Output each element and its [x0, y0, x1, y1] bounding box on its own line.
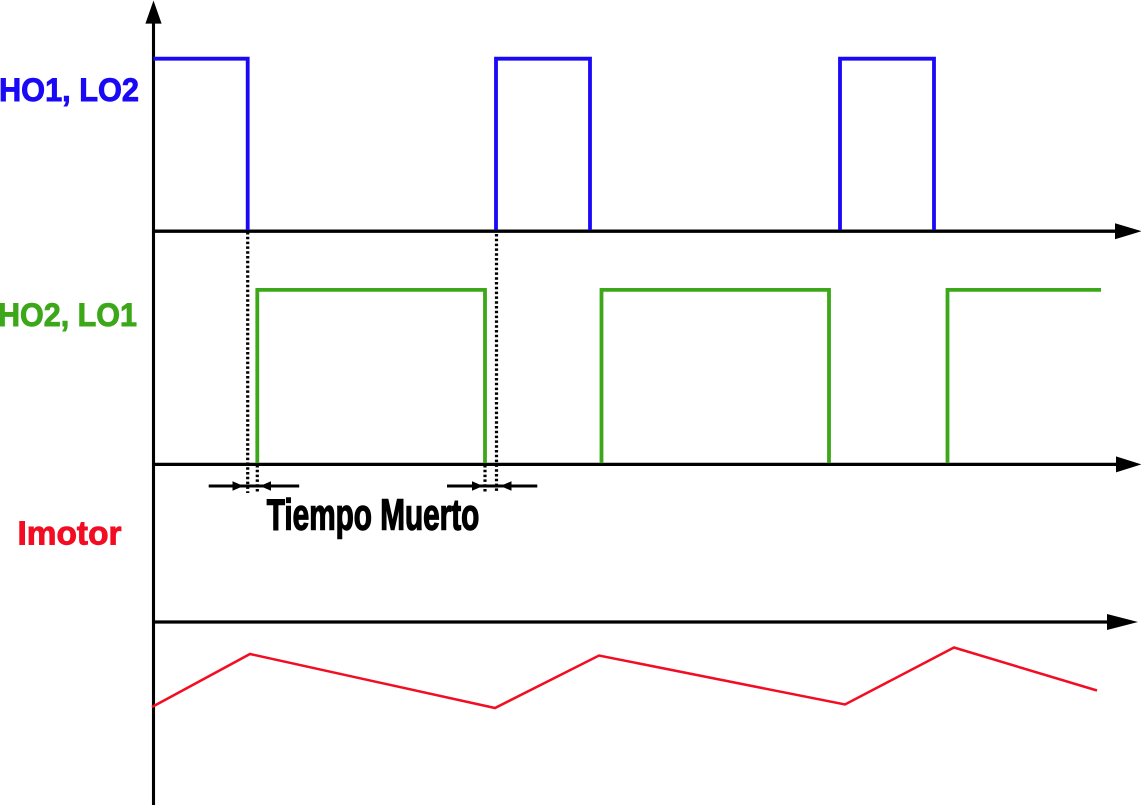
time axis 2 (HO2,LO1 row)	[152, 463, 1118, 466]
dead-time dimension shaft pair 1	[209, 485, 300, 488]
dotted guide line at green pulse1 rising edge	[256, 465, 259, 493]
HO1,LO2 waveform pulse 3	[840, 59, 934, 230]
HO1,LO2 waveform pulse 2	[496, 59, 590, 230]
axis 3 arrowhead	[1107, 614, 1138, 630]
HO1,LO2 waveform pulse 1	[154, 59, 248, 230]
HO2,LO1 waveform pulse 2	[602, 290, 830, 463]
time axis 3 (Imotor row)	[152, 620, 1108, 623]
HO2,LO1 waveform pulse 1	[257, 290, 485, 463]
dotted guide line at blue pulse2 rising edge	[495, 234, 498, 493]
svg-text:Imotor: Imotor	[18, 516, 122, 553]
time axis 1 (HO1,LO2 row)	[152, 230, 1117, 233]
y-axis	[152, 20, 155, 805]
dead-time dimension shaft pair 2	[447, 485, 537, 488]
dead-time arrowhead pointing right (pair 2)	[472, 481, 483, 491]
svg-text:HO2, LO1: HO2, LO1	[0, 296, 137, 333]
axis 1 arrowhead	[1115, 223, 1141, 239]
dotted guide line at green pulse1 falling edge	[483, 465, 486, 493]
axis 2 arrowhead	[1116, 456, 1141, 472]
dotted guide line at blue pulse1 falling edge	[246, 232, 249, 493]
dead-time arrowhead pointing right (pair 1)	[233, 481, 244, 491]
y-axis arrowhead	[145, 1, 161, 24]
svg-text:Tiempo Muerto: Tiempo Muerto	[267, 492, 480, 540]
svg-text:HO1, LO2: HO1, LO2	[0, 71, 139, 108]
dead-time arrowhead pointing left (pair 1)	[260, 481, 271, 491]
HO2,LO1 waveform pulse 3	[948, 290, 1102, 463]
dead-time arrowhead pointing left (pair 2)	[501, 481, 512, 491]
Imotor ripple waveform	[152, 648, 1097, 709]
